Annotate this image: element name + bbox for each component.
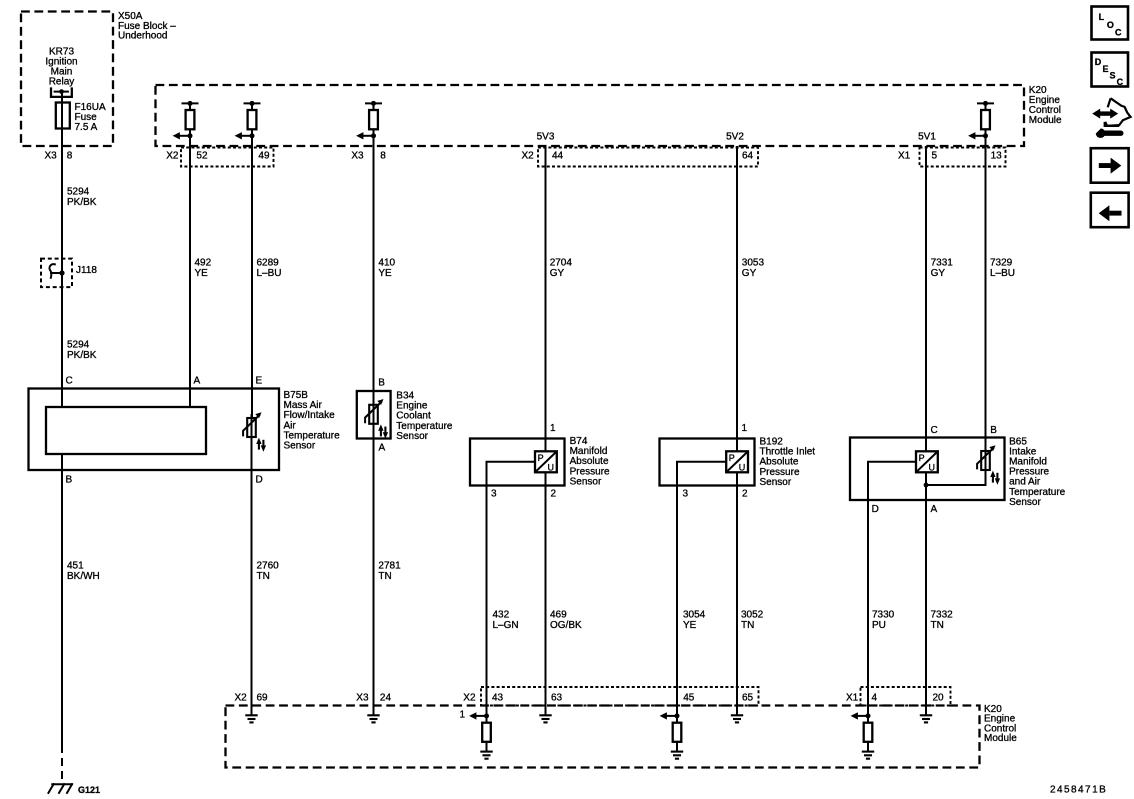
pull-down resistor and ground at ECM pin 45 bbox=[660, 712, 684, 759]
svg-text:2: 2 bbox=[551, 489, 557, 500]
svg-text:P: P bbox=[729, 453, 735, 463]
pin letter E (B75B) bbox=[256, 375, 263, 386]
ECM K20 bottom label bbox=[984, 704, 1017, 744]
svg-text:63: 63 bbox=[551, 693, 563, 704]
svg-text:492: 492 bbox=[195, 258, 212, 269]
B34 label bbox=[396, 391, 453, 442]
ECM driver pin X2-52 bbox=[173, 101, 199, 140]
wire label 410 YE bbox=[378, 258, 395, 280]
svg-text:20: 20 bbox=[933, 693, 945, 704]
svg-text:2458471B: 2458471B bbox=[1050, 785, 1107, 796]
svg-text:5294: 5294 bbox=[67, 340, 90, 351]
wire label 6289 L-BU bbox=[257, 258, 282, 280]
svg-text:OG/BK: OG/BK bbox=[550, 620, 582, 631]
ground label G121 bbox=[78, 785, 100, 795]
svg-text:A: A bbox=[931, 504, 938, 515]
svg-text:C: C bbox=[1117, 77, 1124, 87]
svg-text:L–BU: L–BU bbox=[257, 268, 282, 279]
svg-text:A: A bbox=[379, 443, 386, 454]
ground symbol inside ECM pin 69 bbox=[245, 715, 257, 722]
svg-text:5V1: 5V1 bbox=[918, 132, 936, 143]
svg-text:TN: TN bbox=[741, 620, 754, 631]
connector labels X1 5 13 bbox=[898, 151, 1002, 162]
MAF sensing element (inner box) bbox=[46, 407, 206, 454]
svg-text:YE: YE bbox=[378, 268, 392, 279]
B74 label bbox=[570, 436, 610, 487]
svg-text:D: D bbox=[872, 504, 879, 515]
svg-text:410: 410 bbox=[378, 258, 395, 269]
svg-text:1: 1 bbox=[460, 710, 466, 721]
chassis ground G121 bbox=[48, 783, 73, 794]
IMAP sensor B65 box bbox=[850, 438, 1005, 501]
svg-text:1: 1 bbox=[550, 423, 556, 434]
svg-text:X2: X2 bbox=[235, 693, 248, 704]
pressure transducer P/U (B65) bbox=[916, 451, 938, 472]
svg-text:2: 2 bbox=[742, 489, 748, 500]
connector label X2 69 (bottom) bbox=[235, 693, 269, 704]
svg-text:U: U bbox=[548, 462, 555, 472]
svg-text:GY: GY bbox=[931, 268, 946, 279]
svg-text:7332: 7332 bbox=[931, 610, 954, 621]
svg-text:X3: X3 bbox=[351, 151, 364, 162]
wire 432 L-GN (B74 3 to ECM 43) bbox=[486, 486, 488, 724]
svg-text:2781: 2781 bbox=[378, 561, 401, 572]
footnote 1 (pin 43) bbox=[460, 710, 466, 721]
wire MAF B internal and down bbox=[61, 454, 63, 745]
svg-text:52: 52 bbox=[196, 151, 208, 162]
splice J118 dashed box bbox=[41, 259, 72, 288]
wire 492 YE (ECM 52 to MAF A) bbox=[189, 129, 191, 407]
wire 7332 TN (B65 A to ECM 20) bbox=[925, 472, 927, 715]
wire label 5294 PK/BK (upper) bbox=[67, 187, 97, 209]
svg-text:A: A bbox=[194, 375, 201, 386]
svg-text:D: D bbox=[256, 475, 263, 486]
DESC icon box bbox=[1092, 53, 1129, 88]
ECM driver pin X1-13 bbox=[968, 101, 994, 140]
svg-text:E: E bbox=[256, 375, 263, 386]
svg-text:B: B bbox=[378, 377, 385, 388]
pull-down resistor and ground at ECM pin X1-4 bbox=[851, 712, 875, 759]
svg-text:B: B bbox=[66, 475, 73, 486]
svg-text:3052: 3052 bbox=[741, 610, 764, 621]
wire fuse output down to MAF sensor bbox=[61, 92, 63, 407]
fuse block X50A dashed box bbox=[21, 12, 113, 147]
connector dotted box X2 (pins 44,64) bbox=[538, 148, 758, 167]
svg-text:B: B bbox=[990, 425, 997, 436]
wire B192 pin3 internal bbox=[677, 462, 726, 486]
svg-text:Sensor: Sensor bbox=[760, 477, 792, 488]
ground symbol inside ECM pin 20 bbox=[920, 715, 932, 722]
svg-text:4: 4 bbox=[872, 693, 878, 704]
svg-text:5294: 5294 bbox=[67, 187, 90, 198]
IAT thermistor inside B65 bbox=[977, 445, 1000, 485]
wire B65 pin D internal bbox=[868, 462, 916, 500]
svg-text:X2: X2 bbox=[522, 151, 535, 162]
connector label X3 pin 8 (fuse block) bbox=[45, 150, 73, 161]
svg-text:1: 1 bbox=[742, 423, 748, 434]
pin number 1 (B192) bbox=[742, 423, 748, 434]
ground symbol inside ECM pin 65 bbox=[731, 715, 743, 722]
svg-text:13: 13 bbox=[991, 151, 1003, 162]
svg-text:PU: PU bbox=[872, 620, 886, 631]
svg-text:24: 24 bbox=[380, 693, 392, 704]
wire 2704 GY (5V3 to B74 1) bbox=[545, 146, 547, 451]
wire B74 pin3 internal bbox=[487, 462, 536, 486]
ECT sensor B34 box bbox=[357, 391, 391, 439]
pin letter A (B34) bbox=[379, 443, 386, 454]
MAP sensor B74 box bbox=[470, 439, 565, 486]
svg-text:432: 432 bbox=[493, 610, 510, 621]
drawing number 2458471B bbox=[1050, 785, 1107, 796]
wire 3054 YE (B192 3 to ECM 45) bbox=[676, 486, 678, 724]
wire label 7330 PU bbox=[872, 610, 895, 632]
fuse block X50A label bbox=[118, 11, 176, 42]
svg-text:D: D bbox=[1095, 57, 1102, 67]
svg-text:Module: Module bbox=[984, 733, 1017, 744]
connector dotted box X1 (pins 5,13) bbox=[920, 148, 1006, 167]
pin letter B (B75B) bbox=[66, 475, 73, 486]
pin letter A (B75B) bbox=[194, 375, 201, 386]
wire 6289 L-BU (ECM 49 to MAF E) bbox=[251, 129, 253, 418]
wire 7331 GY (5V1 to B65 C) bbox=[925, 146, 927, 451]
ground symbol inside ECM pin 24 bbox=[367, 715, 379, 722]
B75B label bbox=[284, 390, 341, 452]
svg-text:P: P bbox=[538, 453, 544, 463]
connector labels X2 52 49 bbox=[166, 151, 270, 162]
svg-text:65: 65 bbox=[742, 693, 754, 704]
splice J118 label bbox=[76, 265, 97, 276]
svg-text:X2: X2 bbox=[166, 151, 179, 162]
svg-text:6289: 6289 bbox=[257, 258, 280, 269]
svg-text:3054: 3054 bbox=[683, 610, 706, 621]
svg-text:69: 69 bbox=[257, 693, 269, 704]
svg-text:3: 3 bbox=[683, 489, 689, 500]
svg-text:X3: X3 bbox=[356, 693, 369, 704]
wire MAF D down to ECM 69 bbox=[251, 437, 253, 715]
svg-text:YE: YE bbox=[683, 620, 697, 631]
pull-down resistor and ground at ECM pin 43 bbox=[469, 712, 493, 759]
svg-text:X2: X2 bbox=[463, 693, 476, 704]
pin number 3 (B192) bbox=[683, 489, 689, 500]
svg-text:Sensor: Sensor bbox=[396, 431, 428, 442]
svg-text:3: 3 bbox=[491, 489, 497, 500]
svg-text:YE: YE bbox=[195, 268, 209, 279]
wire 410 YE (ECM X3-8 to ECT B) bbox=[373, 129, 375, 405]
ground symbol inside ECM pin 63 bbox=[539, 715, 551, 722]
pin letter D (B65) bbox=[872, 504, 879, 515]
ECM K20 bottom dashed box bbox=[226, 706, 980, 768]
svg-text:L–BU: L–BU bbox=[990, 268, 1015, 279]
svg-text:O: O bbox=[1107, 20, 1114, 30]
svg-text:BK/WH: BK/WH bbox=[67, 571, 100, 582]
fuse F16UA label bbox=[75, 102, 106, 133]
wire label 3054 YE bbox=[683, 610, 706, 632]
svg-text:TN: TN bbox=[931, 620, 944, 631]
wire label 2704 GY bbox=[550, 258, 573, 280]
pin letter D (B75B) bbox=[256, 475, 263, 486]
fuse F16UA bbox=[56, 103, 70, 129]
connector label X3 8 (ECM) bbox=[351, 151, 386, 162]
ECM K20 top label bbox=[1029, 85, 1062, 126]
ECT thermistor inside B34 bbox=[365, 399, 388, 439]
connector repair icon (double arrow, housing outline, wrench) bbox=[1092, 98, 1130, 138]
svg-text:45: 45 bbox=[683, 693, 695, 704]
svg-text:7329: 7329 bbox=[990, 258, 1013, 269]
pin letter C (B75B) bbox=[66, 375, 73, 386]
svg-text:L–GN: L–GN bbox=[493, 620, 519, 631]
svg-text:2760: 2760 bbox=[257, 561, 280, 572]
MAF sensor B75B box bbox=[29, 389, 280, 471]
ECM K20 top dashed box bbox=[156, 85, 1025, 146]
svg-text:44: 44 bbox=[552, 151, 564, 162]
pressure transducer P/U (B74) bbox=[535, 451, 557, 472]
svg-text:7.5 A: 7.5 A bbox=[75, 122, 98, 133]
wire 3053 GY (5V2 to B192 1) bbox=[736, 146, 738, 451]
wire 7330 PU (B65 D to ECM X1-4) bbox=[867, 500, 869, 723]
svg-text:X1: X1 bbox=[898, 151, 911, 162]
LOC icon box bbox=[1092, 7, 1129, 40]
svg-text:43: 43 bbox=[492, 693, 504, 704]
connector dotted box X2 (pins 52,49) bbox=[181, 148, 274, 167]
wire label 492 YE bbox=[195, 258, 212, 280]
svg-text:Module: Module bbox=[1029, 115, 1062, 126]
wire label 3052 TN bbox=[741, 610, 764, 632]
backward reference arrow icon bbox=[1091, 193, 1129, 228]
wire B65 thermistor to pin A junction bbox=[924, 470, 986, 487]
svg-text:469: 469 bbox=[550, 610, 567, 621]
svg-text:C: C bbox=[66, 375, 73, 386]
svg-text:E: E bbox=[1103, 64, 1109, 74]
wire label 451 BK/WH bbox=[67, 561, 100, 583]
svg-text:8: 8 bbox=[380, 151, 386, 162]
svg-text:PK/BK: PK/BK bbox=[67, 350, 97, 361]
ECM driver pin X2-49 bbox=[235, 101, 261, 140]
svg-text:Relay: Relay bbox=[49, 77, 75, 88]
svg-text:TN: TN bbox=[257, 571, 270, 582]
pin letter A (B65) bbox=[931, 504, 938, 515]
svg-text:U: U bbox=[739, 462, 746, 472]
svg-text:7331: 7331 bbox=[931, 258, 954, 269]
wire 469 OG/BK (B74 2 to ECM 63) bbox=[545, 472, 547, 715]
wire label 469 OG/BK bbox=[550, 610, 582, 632]
splice J118 symbol bbox=[49, 264, 64, 279]
wire dashed segment to G121 bbox=[61, 745, 63, 782]
wire label 2781 TN bbox=[378, 561, 401, 583]
connector labels X1 4 20 bbox=[846, 693, 944, 704]
wire label 432 L-GN bbox=[493, 610, 519, 632]
forward reference arrow icon bbox=[1091, 148, 1129, 183]
wire label 7329 L-BU bbox=[990, 258, 1015, 280]
net label 5V3 bbox=[537, 132, 555, 143]
connector label X3 24 (bottom) bbox=[356, 693, 391, 704]
pin letter B (B65) bbox=[990, 425, 997, 436]
svg-text:3053: 3053 bbox=[742, 258, 765, 269]
svg-text:X1: X1 bbox=[846, 693, 859, 704]
wire label 5294 PK/BK (lower) bbox=[67, 340, 97, 362]
net label 5V2 bbox=[726, 132, 744, 143]
IAT thermistor inside B75B bbox=[243, 412, 266, 452]
pin number 1 (B74) bbox=[550, 423, 556, 434]
svg-text:X3: X3 bbox=[45, 150, 58, 161]
pin number 2 (B192) bbox=[742, 489, 748, 500]
svg-text:J118: J118 bbox=[76, 265, 97, 276]
wire 7329 L-BU (ECM 13 to B65 B) bbox=[985, 129, 987, 451]
svg-text:Underhood: Underhood bbox=[118, 31, 167, 42]
svg-text:64: 64 bbox=[742, 151, 754, 162]
net label 5V1 bbox=[918, 132, 936, 143]
svg-text:5V2: 5V2 bbox=[726, 132, 744, 143]
relay KR73 output terminal symbol bbox=[51, 87, 72, 97]
svg-text:8: 8 bbox=[67, 150, 73, 161]
wire label 7332 TN bbox=[931, 610, 954, 632]
svg-text:P: P bbox=[919, 453, 925, 463]
pressure transducer P/U (B192) bbox=[726, 451, 748, 472]
pin number 3 (B74) bbox=[491, 489, 497, 500]
connector labels X2 43 63 45 65 bbox=[463, 693, 753, 704]
svg-text:C: C bbox=[931, 425, 938, 436]
svg-text:Sensor: Sensor bbox=[284, 441, 316, 452]
pin letter B (B34) bbox=[378, 377, 385, 388]
svg-text:G121: G121 bbox=[78, 785, 100, 795]
svg-text:L: L bbox=[1099, 12, 1105, 22]
wire label 7331 GY bbox=[931, 258, 954, 280]
wire label 3053 GY bbox=[742, 258, 765, 280]
svg-text:49: 49 bbox=[258, 151, 270, 162]
connector dotted box X1 (pins 4,20) bbox=[861, 687, 951, 706]
B192 label bbox=[760, 437, 816, 488]
wire ECT A down to ECM 24 bbox=[373, 424, 375, 715]
TIAP sensor B192 box bbox=[660, 439, 755, 486]
svg-text:7330: 7330 bbox=[872, 610, 895, 621]
svg-text:PK/BK: PK/BK bbox=[67, 197, 97, 208]
svg-text:Sensor: Sensor bbox=[570, 476, 602, 487]
svg-text:Sensor: Sensor bbox=[1009, 497, 1041, 508]
svg-text:S: S bbox=[1110, 71, 1116, 81]
svg-text:C: C bbox=[1115, 28, 1122, 38]
svg-text:5: 5 bbox=[932, 151, 938, 162]
svg-text:GY: GY bbox=[550, 268, 565, 279]
wire label 2760 TN bbox=[257, 561, 280, 583]
svg-text:451: 451 bbox=[67, 561, 84, 572]
ECM driver pin X3-8 bbox=[356, 101, 382, 140]
relay KR73 label bbox=[45, 47, 77, 88]
wire MAF A internal bbox=[189, 389, 191, 408]
svg-text:2704: 2704 bbox=[550, 258, 573, 269]
svg-text:U: U bbox=[929, 462, 936, 472]
svg-text:TN: TN bbox=[378, 571, 391, 582]
connector dotted box X2 (pins 43,63,45,65) bbox=[481, 687, 759, 706]
pin letter C (B65) bbox=[931, 425, 938, 436]
wire 3052 TN (B192 2 to ECM 65) bbox=[736, 472, 738, 715]
svg-text:GY: GY bbox=[742, 268, 757, 279]
connector labels X2 44 64 bbox=[522, 151, 754, 162]
pin number 2 (B74) bbox=[551, 489, 557, 500]
B65 label bbox=[1009, 436, 1066, 508]
svg-text:5V3: 5V3 bbox=[537, 132, 555, 143]
